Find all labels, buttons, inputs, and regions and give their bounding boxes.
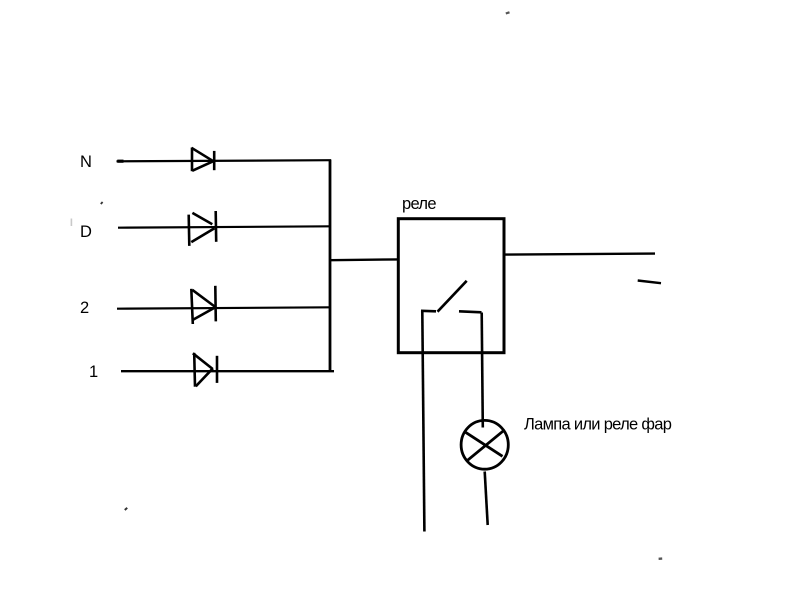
relay label bbox=[402, 195, 436, 213]
stray mark bottom right bbox=[659, 557, 663, 560]
node 1 label bbox=[89, 363, 98, 381]
wire 2 bbox=[117, 307, 331, 308]
wire output stub bbox=[638, 281, 661, 284]
switch left contact dash bbox=[421, 309, 436, 312]
svg-text:Лампа или реле фар: Лампа или реле фар bbox=[524, 416, 672, 434]
stray mark top bbox=[506, 12, 510, 13]
relay U1 box bbox=[398, 219, 504, 353]
lamp label bbox=[524, 416, 672, 434]
bus wire bbox=[329, 160, 332, 372]
wire 1 bbox=[121, 370, 334, 372]
wire lamp bottom bbox=[485, 472, 488, 526]
node N label bbox=[80, 153, 92, 171]
wire N bbox=[117, 160, 332, 161]
wire bus to relay bbox=[330, 258, 398, 261]
svg-text:1: 1 bbox=[89, 363, 98, 381]
wire relay output bbox=[504, 254, 655, 255]
stray smudge left margin bbox=[70, 219, 72, 227]
node D label bbox=[80, 223, 92, 241]
switch blade bbox=[438, 281, 467, 312]
wire relay right pin to lamp bbox=[482, 313, 483, 428]
diode D2 bbox=[189, 211, 217, 246]
diode D1 bbox=[192, 148, 215, 172]
stray mark near D bbox=[101, 202, 103, 204]
stray mark bottom left bbox=[125, 508, 127, 510]
wire relay left pin down bbox=[422, 311, 424, 532]
svg-text:D: D bbox=[80, 223, 92, 241]
wire D bbox=[118, 226, 331, 227]
node 2 label bbox=[80, 299, 89, 317]
svg-text:N: N bbox=[80, 153, 92, 171]
diode D4 bbox=[193, 353, 217, 387]
svg-text:реле: реле bbox=[402, 195, 436, 213]
diode D3 bbox=[191, 286, 216, 324]
svg-text:2: 2 bbox=[80, 299, 89, 317]
lamp HL1 bbox=[461, 420, 508, 469]
switch right contact dash bbox=[459, 311, 482, 312]
